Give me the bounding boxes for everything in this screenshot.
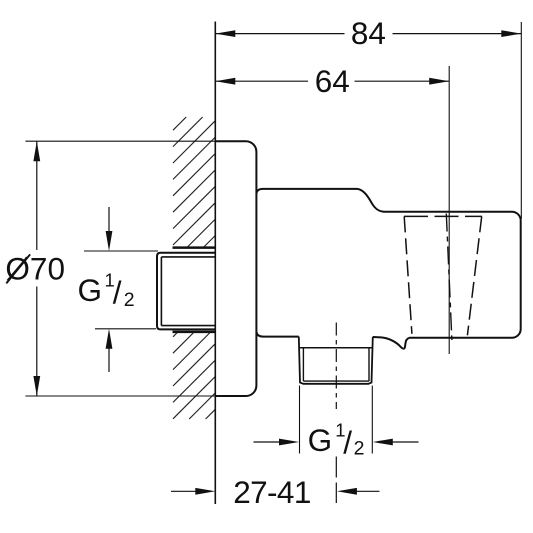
svg-text:2: 2 bbox=[354, 437, 365, 459]
dimension diameter 70 up arrowhead bbox=[33, 141, 40, 161]
inlet thread G1/2 extension line top bbox=[84, 250, 158, 252]
holder cone dashed axis bbox=[446, 214, 452, 341]
dimension 64 right arrowhead bbox=[429, 78, 449, 85]
wall hatch upper region bbox=[173, 117, 215, 248]
flange outline bbox=[215, 141, 256, 396]
outlet thread inner bottom line bbox=[303, 380, 369, 382]
dimension diameter 70 extension line top bbox=[25, 140, 215, 142]
svg-text:G: G bbox=[308, 422, 333, 458]
inlet thread inner bottom line bbox=[161, 325, 215, 327]
dimension 84 line bbox=[215, 33, 344, 35]
outlet G1/2 right arrow bbox=[391, 441, 419, 443]
dimension diameter 70 extension line bottom bbox=[25, 395, 215, 397]
outlet thread inner right line bbox=[368, 348, 370, 381]
inlet thread outer outline bbox=[157, 253, 215, 330]
svg-text:/: / bbox=[113, 275, 122, 311]
holder cone dashed right edge bbox=[467, 216, 481, 335]
dimension 64 left arrowhead bbox=[215, 78, 235, 85]
dimension diameter 70 down arrowhead bbox=[33, 376, 40, 396]
outlet G1/2 extension line left bbox=[299, 386, 301, 454]
holder cone dashed left edge bbox=[404, 216, 412, 333]
svg-text:Ø70: Ø70 bbox=[5, 251, 65, 287]
svg-text:G: G bbox=[78, 272, 103, 308]
dimension 84 right arrowhead bbox=[501, 30, 521, 37]
outlet center line bbox=[335, 323, 337, 410]
body bottom left edge bbox=[256, 332, 298, 337]
dimension diameter 70 label slash overstrike bbox=[6, 254, 30, 283]
svg-text:64: 64 bbox=[315, 63, 350, 99]
svg-text:84: 84 bbox=[351, 15, 386, 51]
inlet thread G1/2 down arrow bbox=[108, 207, 110, 233]
inlet thread inner top line bbox=[161, 256, 215, 258]
svg-text:2: 2 bbox=[124, 289, 135, 311]
dimension 27-41 left arrow bbox=[171, 490, 197, 492]
outlet thread outer outline bbox=[299, 337, 373, 384]
dimension 84 left arrowhead bbox=[215, 30, 235, 37]
outlet G1/2 left arrow bbox=[254, 441, 282, 443]
dimension 84 extension line right bbox=[520, 22, 522, 219]
outlet G1/2 extension line right bbox=[371, 386, 373, 454]
outlet collar line bbox=[299, 347, 373, 349]
dimension diameter 70 line bbox=[36, 141, 38, 250]
inlet thread G1/2 extension line bottom bbox=[95, 328, 156, 330]
svg-text:27-41: 27-41 bbox=[233, 474, 311, 510]
holder cone dashed top edge bbox=[404, 215, 482, 217]
inlet thread inner left line bbox=[160, 257, 162, 326]
body top edge with step bbox=[256, 189, 520, 329]
dimension 27-41 right arrow bbox=[355, 490, 380, 492]
inlet thread G1/2 up arrow bbox=[108, 347, 110, 372]
wall hole bottom edge bbox=[173, 331, 216, 334]
body bottom drip notch bbox=[373, 337, 404, 349]
wall hole top edge bbox=[173, 246, 216, 249]
wall face line bbox=[214, 22, 216, 505]
dimension 64 line bbox=[215, 80, 308, 82]
dimension 64 extension line right bbox=[448, 66, 450, 354]
wall hatch lower region bbox=[173, 332, 215, 419]
svg-text:/: / bbox=[343, 424, 352, 460]
outlet thread inner left line bbox=[302, 348, 304, 381]
body bottom right edge with corner bbox=[404, 329, 521, 349]
